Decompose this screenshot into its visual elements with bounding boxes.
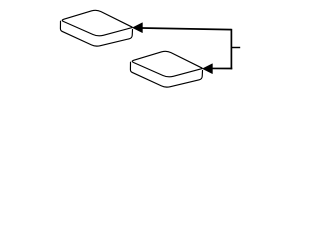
wire bus (right vertical line joining W1 and W2): [230, 29, 232, 69]
arrowhead A1 (points left at right corner of plate P1): [133, 23, 143, 33]
plate P2 (lower-middle slab): [130, 51, 202, 87]
plate P1 (upper-left slab): [60, 10, 132, 46]
wire W2 (bottom horizontal lead from arrowhead A2 to bus corner): [212, 67, 232, 69]
arrowhead A2 (points left at right corner of plate P2): [203, 64, 213, 74]
tick stub on bus (short horizontal mark, mid-height): [232, 47, 241, 49]
wire W1 (top horizontal lead from arrowhead A1 to bus corner): [142, 28, 231, 30]
